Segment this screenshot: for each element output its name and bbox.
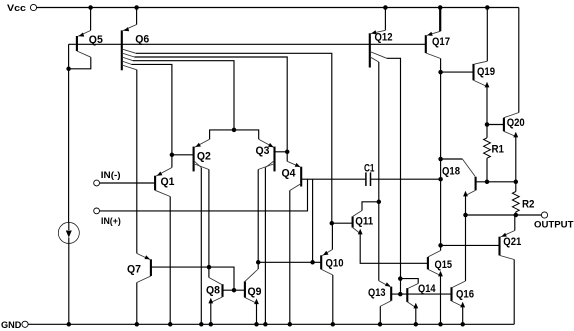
Vcc supply rail: [7, 3, 519, 14]
wire Q8/Q9 base line: [223, 288, 245, 293]
svg-text:Q21: Q21: [503, 236, 521, 248]
transistor Q16 (NPN): [452, 287, 475, 324]
wire Q7 base to Q8 collector node: [151, 265, 234, 290]
transistor Q17 (PNP): [426, 8, 450, 59]
terminal OUTPUT: [463, 212, 573, 231]
GND rail: [1, 320, 514, 331]
transistor Q10 (PNP): [321, 223, 343, 324]
svg-text:Q8: Q8: [206, 285, 220, 297]
current source I1: [58, 222, 79, 324]
svg-text:Q11: Q11: [355, 216, 373, 228]
terminal IN(+): [94, 179, 308, 227]
transistor Q13 (PNP): [368, 281, 391, 325]
svg-text:Q18: Q18: [442, 166, 460, 178]
transistor Q4 (PNP input): [282, 152, 302, 324]
svg-text:GND: GND: [1, 320, 22, 331]
transistor Q11 (NPN): [353, 200, 428, 264]
GND rail junction dots: [67, 322, 465, 327]
transistor Q8 (mirror NPN): [206, 278, 223, 325]
svg-text:Q20: Q20: [507, 117, 525, 129]
wire Q4 base to IN(+): [301, 178, 312, 180]
transistor Q7 (PNP): [127, 253, 151, 324]
transistor Q5 (diode-connected PNP): [69, 8, 103, 69]
resistor R2: [512, 180, 534, 215]
wire Q3 collector 2 to GND: [265, 161, 274, 325]
terminal IN(-): [94, 170, 155, 186]
svg-text:Q9: Q9: [248, 286, 262, 298]
svg-text:IN(+): IN(+): [101, 216, 121, 227]
transistor Q3 (dual-collector PNP input): [256, 139, 275, 171]
wire input tail: [210, 128, 259, 140]
transistor Q14 (diode-connected NPN): [398, 276, 436, 324]
wire Q12 collector 2 (to Q11 collector and Q13 emitter): [370, 57, 379, 281]
svg-text:Q17: Q17: [432, 36, 450, 48]
capacitor C1 left lead: [312, 179, 314, 262]
wire Q6 collector 5 (to Q7 emitter): [122, 65, 137, 253]
svg-text:Q7: Q7: [127, 264, 141, 276]
wire Q6 collector 4 (to Q1 emitter node): [122, 61, 172, 155]
wire Q12 collector 1 (to Q14 mirror node): [370, 52, 401, 295]
wire Q3 base to node: [275, 150, 290, 155]
svg-text:Q12: Q12: [375, 32, 393, 44]
svg-text:Q3: Q3: [256, 145, 270, 157]
svg-text:Q19: Q19: [477, 66, 495, 78]
wire Q6 collector 3 (to input tail): [122, 57, 234, 130]
wire Q17 collector line down (to Q15 collector node): [438, 59, 443, 248]
wire Q6 collector 1 (to Q11 base node): [122, 49, 332, 223]
transistor Q15 (NPN): [428, 245, 452, 324]
wire Q2 collector 2 to Q8 collector: [194, 164, 209, 278]
capacitor C1: [313, 163, 441, 187]
svg-text:R2: R2: [522, 199, 535, 211]
wire second-stage input node (Q9/Q3 collectors to Q10 base): [258, 260, 321, 265]
transistor Q9 (mirror NPN): [245, 269, 262, 324]
transistor Q19 (NPN follower): [441, 8, 495, 125]
svg-text:Q1: Q1: [161, 176, 175, 188]
svg-text:Q16: Q16: [456, 289, 474, 301]
wire Q5 base tie (base line left end down to collector): [66, 44, 71, 222]
svg-text:Q10: Q10: [326, 258, 344, 270]
Vcc rail junction dots: [88, 5, 489, 10]
transistor Q18 (NPN): [441, 159, 516, 215]
svg-text:Q6: Q6: [135, 34, 149, 46]
svg-text:OUTPUT: OUTPUT: [534, 220, 574, 231]
svg-text:Q15: Q15: [435, 259, 453, 271]
wire Q2 collector 1 to GND: [194, 161, 202, 325]
wire Q13/Q14/Q16 base line: [391, 292, 451, 297]
svg-text:IN(-): IN(-): [101, 170, 121, 181]
svg-text:Vcc: Vcc: [7, 3, 26, 14]
svg-text:Q2: Q2: [197, 150, 211, 162]
node Q1 emitter / Q2 base: [170, 153, 194, 158]
svg-text:R1: R1: [492, 144, 505, 156]
transistor Q21 (PNP output sink): [500, 215, 522, 324]
transistor Q20 (NPN): [485, 8, 525, 182]
wire Q6 collector 2 (to Q3 base node): [122, 53, 287, 152]
transistor Q1 (PNP input): [155, 155, 174, 324]
transistor Q12 (dual-collector PNP): [370, 8, 393, 68]
node Q11 base: [330, 221, 353, 226]
svg-text:C1: C1: [364, 163, 375, 175]
wire Q3 collector 1 (to Q9 collector node): [256, 164, 275, 269]
wire common base bias line (Q5-Q6-Q12-Q17): [69, 43, 426, 45]
svg-text:Q4: Q4: [282, 168, 297, 180]
svg-text:Q14: Q14: [418, 283, 436, 295]
svg-text:Q13: Q13: [368, 287, 386, 299]
transistor Q6 (multi-collector PNP): [122, 8, 149, 71]
transistor Q2 (dual-collector PNP input): [194, 139, 211, 171]
wire Q16 collector line (output node down): [453, 215, 466, 287]
resistor R1: [484, 125, 504, 185]
wire Q21 base line (from Q15 collector node): [441, 244, 500, 246]
